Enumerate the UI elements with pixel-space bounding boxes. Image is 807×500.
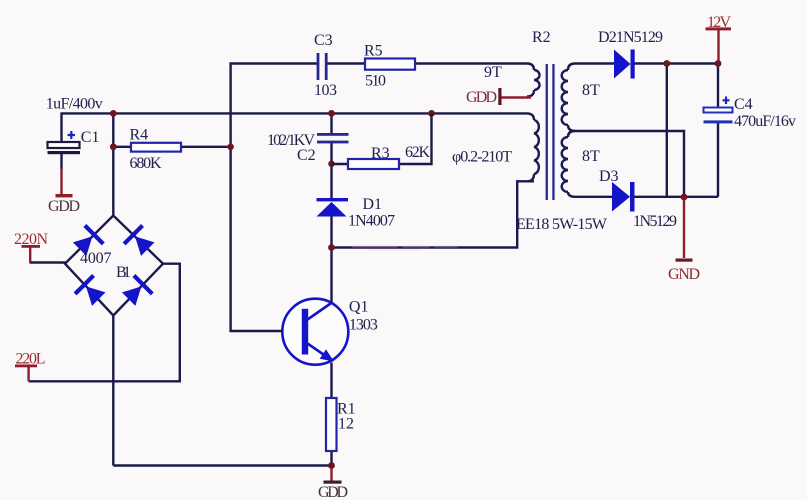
svg-text:680K: 680K xyxy=(130,155,162,172)
svg-text:R5: R5 xyxy=(364,43,383,60)
svg-text:R2: R2 xyxy=(532,29,551,46)
svg-text:C1: C1 xyxy=(81,129,100,146)
svg-text:12: 12 xyxy=(338,416,354,433)
svg-text:B1: B1 xyxy=(116,264,131,281)
svg-text:9T: 9T xyxy=(484,64,502,81)
svg-text:R4: R4 xyxy=(130,127,149,144)
svg-text:D1: D1 xyxy=(363,196,383,213)
svg-text:4007: 4007 xyxy=(80,250,112,267)
svg-text:φ0.2-210T: φ0.2-210T xyxy=(452,149,512,166)
svg-text:1uF/400v: 1uF/400v xyxy=(46,96,103,113)
svg-text:C2: C2 xyxy=(297,147,316,164)
svg-text:GDD: GDD xyxy=(48,198,80,215)
svg-text:1N4007: 1N4007 xyxy=(348,213,395,230)
svg-text:D21N5129: D21N5129 xyxy=(598,29,663,46)
svg-text:8T: 8T xyxy=(582,82,600,99)
svg-text:GDD: GDD xyxy=(466,89,497,106)
svg-text:62K: 62K xyxy=(405,144,430,161)
svg-text:C4: C4 xyxy=(734,96,753,113)
svg-text:R3: R3 xyxy=(371,145,390,162)
svg-text:C3: C3 xyxy=(314,32,333,49)
svg-text:GDD: GDD xyxy=(318,484,348,500)
svg-text:8T: 8T xyxy=(582,148,600,165)
svg-text:D3: D3 xyxy=(599,168,619,185)
svg-text:Q1: Q1 xyxy=(349,298,369,315)
svg-text:470uF/16v: 470uF/16v xyxy=(734,113,796,130)
svg-text:220L: 220L xyxy=(16,351,46,368)
svg-text:103: 103 xyxy=(314,82,337,99)
svg-text:1N5129: 1N5129 xyxy=(633,213,677,230)
svg-text:1303: 1303 xyxy=(349,316,378,333)
svg-text:510: 510 xyxy=(365,73,386,90)
svg-text:GND: GND xyxy=(668,266,700,283)
svg-text:12V: 12V xyxy=(707,14,731,31)
svg-text:EE18 5W-15W: EE18 5W-15W xyxy=(516,216,608,233)
svg-text:220N: 220N xyxy=(14,231,48,248)
